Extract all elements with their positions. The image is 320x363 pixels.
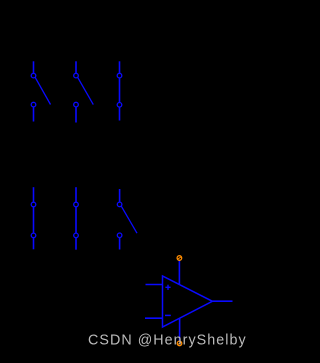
svg-text:CSDN @HenryShelby: CSDN @HenryShelby — [88, 333, 247, 349]
